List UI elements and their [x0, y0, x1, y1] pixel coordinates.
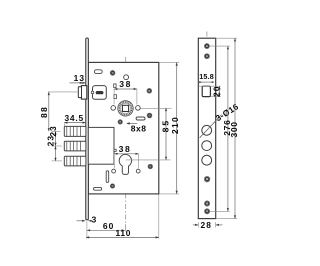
latch case spring (dark capsule) — [96, 91, 104, 94]
hole circle 2 — [202, 141, 212, 151]
leader 8x8 — [127, 122, 137, 124]
dim 60 — [87, 229, 125, 231]
svg-text:8x8: 8x8 — [131, 124, 147, 134]
small slot B — [114, 95, 117, 99]
svg-text:300: 300 — [229, 121, 239, 137]
follower centerline ext right — [141, 107, 172, 109]
dim 28 — [197, 222, 199, 228]
dim 38 lower — [114, 153, 138, 155]
screw right mid — [147, 113, 152, 118]
svg-text:13: 13 — [74, 73, 86, 83]
dim 3 bottom — [77, 220, 86, 222]
dim 20 — [219, 86, 221, 96]
svg-text:110: 110 — [115, 228, 131, 238]
euro cylinder hole — [119, 154, 131, 174]
ext plate top right — [216, 37, 237, 39]
svg-text:85: 85 — [161, 119, 171, 133]
slot capsule mid — [136, 117, 145, 120]
deadbolt pin 1 — [64, 126, 86, 136]
ext lines bottom — [86, 222, 88, 239]
svg-text:20: 20 — [211, 85, 221, 96]
screw top — [110, 71, 115, 76]
screw hole bottom 2 — [205, 209, 210, 214]
deadbolt pin 2 — [64, 141, 86, 151]
screw right upper — [147, 88, 152, 93]
svg-text:23: 23 — [46, 135, 56, 146]
lock body outline — [88, 62, 159, 194]
screw hole mid lower — [204, 176, 210, 182]
screw hole top 2 — [204, 54, 209, 59]
latch centerline ext — [48, 91, 78, 93]
svg-text:60: 60 — [103, 221, 114, 231]
dim 23 23 chain — [55, 131, 57, 161]
dim 276 — [227, 46, 229, 211]
svg-text:38: 38 — [119, 144, 132, 154]
screw hole top 1 — [204, 44, 209, 49]
faceplate outline — [198, 38, 215, 218]
screw hole bottom 1 — [205, 201, 210, 206]
follower (spindle hub) — [118, 101, 133, 116]
cylinder centerline ext right — [126, 159, 171, 161]
svg-text:3: 3 — [92, 215, 97, 225]
latch bolt — [78, 86, 87, 100]
screw bottom — [110, 184, 114, 188]
dim 85 — [165, 108, 167, 160]
hollow circle top centerline — [124, 75, 129, 80]
vertical slot bottom — [106, 171, 109, 183]
ext top screw right — [210, 45, 230, 47]
follower hole left — [111, 106, 116, 111]
dim 300 — [234, 38, 236, 218]
svg-text:88: 88 — [39, 106, 49, 118]
follower hole right — [136, 106, 141, 111]
cylinder hole left — [112, 169, 116, 173]
hole circle 3 — [202, 155, 212, 165]
svg-text:28: 28 — [201, 220, 213, 230]
centerline vertical (follower/cylinder axis) — [125, 57, 127, 231]
cylinder hole right — [136, 169, 140, 173]
dim 13 — [70, 82, 86, 84]
latch case — [93, 86, 107, 100]
dim 110 — [86, 236, 159, 238]
bottom capsule slot — [94, 187, 102, 190]
deadbolt pin 3 — [64, 156, 86, 166]
svg-text:210: 210 — [170, 116, 180, 134]
svg-text:15.8: 15.8 — [199, 72, 214, 81]
dim 34.5 — [64, 122, 85, 124]
hole circle 1 — [202, 125, 212, 135]
latch window square — [202, 86, 210, 96]
dim 210 — [176, 62, 178, 194]
small slot A — [114, 84, 116, 88]
dim 88 — [48, 92, 50, 131]
latch case pivot circle — [91, 91, 94, 94]
deadbolt case notch — [114, 149, 116, 151]
body top ext right — [159, 61, 179, 63]
deadbolt case rectangle — [88, 127, 114, 164]
ext plate bottom right — [216, 218, 237, 220]
body bottom ext right — [159, 193, 179, 195]
screw right lower — [148, 164, 153, 169]
leader 3-O16 — [200, 115, 222, 138]
screw below follower — [118, 120, 122, 124]
dim 38 upper — [114, 88, 137, 90]
svg-text:34.5: 34.5 — [64, 113, 84, 123]
svg-text:38: 38 — [119, 79, 132, 89]
ext bottom screw right — [210, 210, 230, 212]
faceplate side strip — [86, 38, 89, 220]
top slot (capsule) — [94, 70, 102, 74]
faceplate centerline — [206, 32, 208, 218]
square ext lines — [199, 85, 221, 87]
